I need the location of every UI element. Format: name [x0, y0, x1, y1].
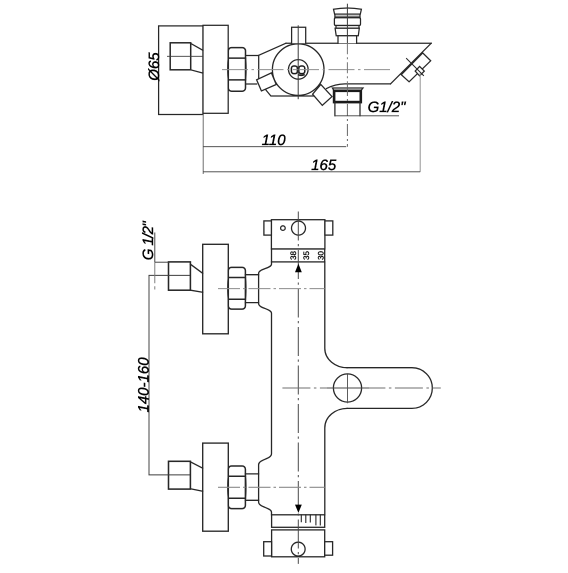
bottom block hole — [291, 542, 305, 556]
svg-text:35: 35 — [302, 251, 311, 260]
bottom block right tab — [325, 542, 333, 556]
svg-text:30: 30 — [316, 251, 325, 260]
G1/2 cap — [332, 88, 363, 91]
outlet center line ext — [346, 43, 348, 84]
nipple axis + tick bottom — [149, 474, 191, 476]
knob vertical center line — [297, 25, 299, 99]
nipple axis — [167, 55, 203, 57]
knob top stub — [292, 27, 306, 43]
aerator holder — [401, 53, 430, 82]
hub logo — [291, 66, 304, 75]
G 1/2 leader vertical — [154, 233, 156, 263]
body neck left — [246, 56, 259, 85]
shower connector ring2 — [336, 26, 359, 29]
hex nut at plate — [228, 48, 246, 92]
G 1/2 leader extension — [154, 262, 156, 289]
body slant top-left — [259, 43, 286, 55]
bottom block left tab — [264, 542, 272, 556]
top block — [271, 220, 325, 249]
arrow up — [295, 264, 302, 273]
wall plate disc — [159, 26, 203, 115]
outlet axis solid segment — [327, 387, 369, 389]
aerator axis line — [407, 59, 424, 76]
bottom inlet cone — [190, 462, 202, 491]
main horizontal axis — [222, 69, 390, 71]
bottom inlet nut — [228, 466, 246, 509]
top block small hole — [281, 226, 286, 231]
svg-text:G1/2": G1/2" — [368, 99, 407, 116]
wall plate body — [203, 25, 228, 113]
scale band bottom — [272, 515, 325, 528]
shower connector center line — [346, 4, 348, 44]
spout end face — [390, 43, 431, 84]
scale band top — [272, 249, 325, 262]
svg-text:140-160: 140-160 — [136, 357, 153, 413]
lower-right tab — [313, 85, 332, 106]
knob circle — [272, 44, 324, 96]
shower connector mid — [334, 18, 360, 26]
top inlet cone — [190, 264, 202, 292]
bar right edge upper — [325, 262, 347, 368]
shower connector lower — [335, 28, 359, 36]
G1/2 nut (thick) — [334, 91, 361, 102]
bottom inlet stub — [245, 474, 258, 500]
svg-text:Ø65: Ø65 — [146, 52, 163, 82]
top block big hole — [292, 221, 306, 235]
dimensions, bottom drawing — [149, 233, 191, 475]
outlet circle — [333, 374, 361, 402]
dimensions, top drawing — [203, 114, 420, 174]
top block right tab — [325, 221, 333, 235]
bar left edge with inlet housings — [259, 262, 272, 515]
center lines, bottom drawing — [218, 212, 441, 564]
svg-text:G 1/2": G 1/2" — [140, 221, 157, 261]
dimension line 165 — [203, 171, 420, 173]
G1/2 leader line — [335, 115, 399, 117]
lower-left tab — [257, 73, 277, 91]
svg-text:110: 110 — [262, 132, 287, 149]
center lines, top drawing — [167, 4, 420, 172]
spout top edge — [286, 42, 431, 44]
wall nipple — [170, 43, 191, 70]
top inlet axis — [218, 288, 325, 290]
top inlet stub — [245, 275, 258, 303]
knob hub circle — [289, 60, 309, 80]
bottom inlet nipple — [169, 461, 191, 489]
shower connector ring1 — [335, 14, 360, 18]
spout bottom edge — [327, 84, 391, 89]
outlet vertical crosshair — [347, 374, 349, 403]
shower connector cap — [334, 8, 362, 14]
svg-text:165: 165 — [311, 157, 337, 174]
nipple axis + tick top — [149, 274, 191, 276]
shower connector neck — [338, 36, 357, 44]
top inlet nut — [228, 267, 246, 309]
bottom inlet axis — [218, 486, 325, 488]
bar right edge lower — [325, 408, 347, 514]
body under-circle outline — [266, 90, 314, 97]
G1/2 center / 110 extension — [346, 84, 348, 147]
vertical center line — [297, 212, 299, 564]
scale band ticks — [301, 515, 320, 525]
outlet horizontal axis — [282, 387, 440, 389]
G 1/2 leader horizontal — [155, 261, 170, 263]
dimension line 140-160 — [148, 275, 150, 475]
arrow down — [295, 505, 302, 513]
nipple cone taper — [191, 43, 203, 73]
165 extension from aerator — [419, 73, 421, 172]
G1/2 sleeve — [335, 102, 360, 116]
spout horn — [347, 368, 432, 409]
top inlet nipple — [169, 262, 191, 290]
bottom inlet escutcheon — [203, 443, 229, 531]
bottom block — [272, 530, 325, 557]
top block left tab — [264, 221, 272, 235]
extension line from plate — [202, 114, 204, 174]
svg-text:38: 38 — [289, 251, 298, 260]
top inlet escutcheon — [203, 244, 229, 333]
aerator outlet square — [415, 66, 424, 76]
dimension line 110 — [203, 146, 346, 148]
